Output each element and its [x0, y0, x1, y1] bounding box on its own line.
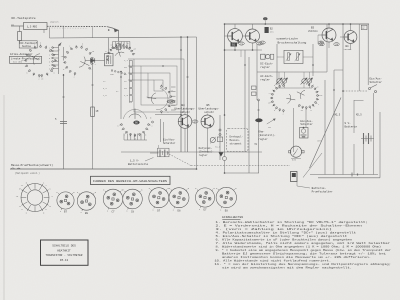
- transistor B5: [201, 115, 214, 128]
- svg-text:Pruefschalter: Pruefschalter: [312, 189, 333, 193]
- svg-text:EINZELHEITEN: EINZELHEITEN: [222, 216, 243, 219]
- svg-text:Batteriezelle: Batteriezelle: [128, 162, 149, 166]
- svg-text:B8: B8: [85, 212, 89, 215]
- svg-text:E7: E7: [203, 209, 207, 212]
- svg-text:1,5 MEG: 1,5 MEG: [27, 25, 38, 28]
- svg-text:2: 2: [27, 47, 28, 50]
- svg-text:B7: B7: [64, 211, 68, 214]
- svg-text:AC-Eich-: AC-Eich-: [260, 74, 273, 78]
- svg-text:2: 2: [269, 92, 270, 95]
- tiny node rings: [180, 49, 182, 51]
- transistor B1 Q1: [228, 29, 243, 44]
- wire y50 bus: [225, 49, 263, 51]
- socket E8: [216, 187, 236, 207]
- oval node 11: [260, 41, 266, 44]
- socket big switch view: [21, 184, 49, 212]
- switch contacts: [369, 88, 371, 90]
- dark oval zum: [255, 118, 262, 122]
- svg-text:D8: D8: [177, 209, 181, 212]
- node oval 15 dark: [263, 17, 267, 20]
- thermistor dark box: [265, 27, 269, 33]
- left column components near F: [252, 86, 257, 90]
- svg-text:sie wird am zweckmassigsten mi: sie wird am zweckmassigsten mit dem Regl…: [222, 266, 352, 270]
- svg-text:(Nullpunkt einst.): (Nullpunkt einst.): [15, 172, 40, 175]
- lamp/pot circle: [210, 137, 215, 142]
- small circle node: [223, 157, 227, 161]
- left bridge rail: [224, 24, 226, 115]
- svg-text:B3,B4: B3,B4: [167, 101, 175, 104]
- shielded cable dashed: [47, 25, 107, 27]
- svg-text:M2,5: M2,5: [356, 113, 362, 116]
- svg-text:abgesch.: abgesch.: [50, 21, 60, 24]
- rotary switch wafer H: [117, 109, 152, 141]
- stub verticals from coax: [63, 27, 65, 38]
- socket C7: [103, 189, 123, 209]
- svg-text:2. E = Vorderseite, H = Ruckse: 2. E = Vorderseite, H = Ruckseite der Sc…: [216, 224, 363, 228]
- dashed mechanical link diagonal: [169, 154, 191, 166]
- svg-text:regler: regler: [199, 154, 209, 157]
- label B6 dark oval: [134, 121, 140, 124]
- cross rail y152: [121, 151, 262, 153]
- rotary switch wafer C: [104, 41, 137, 62]
- svg-text:anderen Instrumenten konnen di: anderen Instrumenten konnen die Messwert…: [222, 255, 371, 259]
- small resistor near wafer C top: [117, 44, 121, 50]
- transistor B3 Q3: [322, 28, 336, 42]
- left rail from wafer B down: [63, 74, 65, 169]
- battery tie wires: [354, 100, 364, 102]
- title box: [41, 240, 89, 265]
- resistor ladder network: [134, 59, 184, 112]
- paper fold line left: [3, 95, 5, 300]
- node arrow between wafers: [59, 43, 62, 46]
- vertical rail x196.5: [196, 37, 198, 169]
- svg-text:2: 2: [74, 76, 75, 79]
- svg-text:2N3391A: 2N3391A: [308, 30, 318, 33]
- svg-text:Schalter: Schalter: [300, 122, 313, 126]
- meter dashed enclosure: [227, 129, 249, 152]
- meter components column: [219, 115, 221, 160]
- battery terminal marks: [351, 173, 353, 177]
- svg-text:regler: regler: [260, 65, 270, 69]
- socket E7: [195, 188, 214, 207]
- svg-text:Alles-Anzeiger: Alles-Anzeiger: [10, 52, 33, 56]
- svg-text:2: 2: [167, 111, 168, 114]
- svg-text:Batterie-: Batterie-: [312, 186, 327, 190]
- N cell battery: [300, 128, 309, 139]
- oval node 72: [318, 41, 324, 44]
- rotary switch wafer F: [268, 81, 295, 116]
- label DC-Tastkopfbuchse: [19, 41, 37, 48]
- socket C8: [123, 189, 143, 209]
- battery box bottom: [310, 174, 378, 176]
- wire wafer B to diode: [85, 60, 91, 62]
- svg-text:Masse-Pruefbuchse(schwarz): Masse-Pruefbuchse(schwarz): [11, 163, 53, 167]
- tall rail pair center: [180, 37, 182, 152]
- svg-text:B73: B73: [318, 140, 323, 143]
- svg-text:2: 2: [309, 80, 310, 83]
- svg-text:6. Alle Kapazitatswerte in uF: 6. Alle Kapazitatswerte in uF (oder Bruc…: [216, 238, 353, 242]
- rotary switch wafer D: [147, 82, 177, 114]
- svg-text:Bruckenschaltung: Bruckenschaltung: [278, 40, 307, 44]
- contact dot 27: [152, 121, 154, 123]
- transistor B4: [178, 115, 192, 129]
- svg-text:Schalter: Schalter: [163, 141, 176, 145]
- resistor R1 1M vertical: [18, 32, 22, 41]
- terminal box top right: [361, 25, 367, 29]
- socket B7: [57, 192, 74, 209]
- capacitor C2 on left rail: [60, 121, 67, 123]
- wire to top net: [108, 38, 110, 54]
- svg-text:Messin-: Messin-: [230, 139, 241, 142]
- svg-text:9. * = bedeutet eine am angege: 9. * = bedeutet eine am angegebenen Mess…: [216, 248, 392, 252]
- oval node 71: [239, 42, 245, 45]
- svg-text:M2,5: M2,5: [335, 113, 341, 116]
- svg-text:E8: E8: [225, 209, 229, 212]
- svg-text:FARBEN DES BEREICH-GM-WAHLSCHA: FARBEN DES BEREICH-GM-WAHLSCHALTERS: [93, 180, 167, 183]
- rotary switch wafer B: [61, 43, 96, 79]
- svg-text:5. Ein/Aus-Schalter in Stellun: 5. Ein/Aus-Schalter in Stellung "OFF" (a…: [216, 234, 348, 238]
- svg-text:2: 2: [318, 103, 319, 106]
- resistor ticks on divider: [91, 107, 95, 117]
- diode D2 dark: [219, 153, 223, 157]
- svg-text:schutz: schutz: [204, 110, 214, 114]
- right rails from top: [358, 24, 360, 91]
- left mid rail: [120, 72, 122, 120]
- B4 B5 leads: [184, 128, 186, 152]
- svg-text:regler: regler: [258, 137, 268, 141]
- svg-text:4. Polaritatsumschalter in Ste: 4. Polaritatsumschalter in Stellung "DC+…: [216, 231, 357, 235]
- svg-text:2: 2: [95, 63, 96, 66]
- probe drop wire: [43, 30, 45, 34]
- vertical pair right of wafer H: [160, 119, 162, 142]
- svg-text:1. Bereichs-Wahlschalter in St: 1. Bereichs-Wahlschalter in Stellung "DC…: [216, 220, 369, 224]
- svg-text:Batterie: Batterie: [345, 124, 358, 128]
- svg-text:B70: B70: [292, 158, 297, 161]
- svg-text:TRANSISTOR - VOLTMETER: TRANSISTOR - VOLTMETER: [46, 254, 83, 257]
- svg-text:(Einstell)-: (Einstell)-: [258, 133, 276, 137]
- jack symbols: [11, 168, 15, 169]
- svg-text:Ohm-: Ohm-: [258, 129, 265, 133]
- rotary switch wafer A: [21, 42, 59, 81]
- svg-text:strument: strument: [230, 143, 243, 146]
- label B3,B4 oval: [167, 100, 175, 103]
- DC-Eich components: [261, 54, 266, 59]
- svg-text:11. * = von der Einstellung de: 11. * = von der Einstellung des Nennspan…: [215, 262, 392, 266]
- transistor B4b Q4: [344, 31, 357, 44]
- oval node 17: [192, 120, 198, 123]
- svg-text:SCHALTBILD DES: SCHALTBILD DES: [52, 245, 76, 248]
- wafer C top contact leads: [112, 42, 114, 48]
- svg-text:2N3392: 2N3392: [344, 48, 353, 51]
- svg-text:HEATHKIT: HEATHKIT: [57, 249, 71, 252]
- probe tip wire: [11, 25, 24, 27]
- transistor B2 Q2: [246, 29, 260, 43]
- svg-text:B4: B4: [181, 104, 185, 107]
- svg-text:B1: B1: [232, 44, 236, 47]
- dashed mechanical link horizontal: [191, 165, 290, 167]
- svg-text:M1,8: M1,8: [215, 146, 221, 149]
- battery area rails: [324, 80, 326, 175]
- svg-text:3. (vorn = Zahlung im Uhrzeige: 3. (vorn = Zahlung im Uhrzeigersinn): [216, 227, 333, 231]
- svg-text:2: 2: [69, 45, 70, 48]
- long diagonal wire: [310, 98, 342, 169]
- wafer A rotor contacts column: [53, 47, 59, 49]
- dashed link to switch: [343, 90, 368, 92]
- junction dots: [224, 49, 226, 51]
- svg-text:B5: B5: [206, 104, 210, 107]
- top rail: [225, 23, 370, 25]
- ladder resistor ticks: [129, 61, 132, 67]
- horizontal link y115: [155, 114, 181, 116]
- oval node 73: [319, 43, 325, 46]
- svg-text:DC-Tastspitze: DC-Tastspitze: [12, 16, 36, 20]
- wafer H bottom pins: [123, 134, 125, 141]
- svg-text:C8: C8: [131, 210, 135, 213]
- oval node 74: [334, 43, 340, 46]
- svg-text:2: 2: [104, 59, 105, 62]
- socket B8: [77, 192, 95, 210]
- svg-text:Ein/Aus-: Ein/Aus-: [370, 77, 383, 81]
- svg-text:7. Alle Widerstande, falls nic: 7. Alle Widerstande, falls nicht anders …: [216, 241, 391, 245]
- svg-text:Schalter: Schalter: [370, 80, 383, 84]
- battery 9V symbol: [361, 138, 374, 140]
- battery cell 1,5V: [150, 152, 159, 154]
- resistor block box: [105, 54, 114, 66]
- bridge wires: [256, 44, 258, 100]
- ground bus wire: [10, 168, 197, 170]
- svg-text:symmetrische: symmetrische: [276, 36, 298, 40]
- svg-text:D7: D7: [157, 209, 161, 212]
- svg-text:10. Alle Widerstande sind nich: 10. Alle Widerstande sind nicht fortlauf…: [215, 259, 332, 263]
- divider rail x=92.5: [92, 61, 94, 170]
- probe body box 1,5 Meg: [24, 23, 48, 30]
- svg-text:regler: regler: [260, 77, 270, 81]
- banner FARBEN box: [91, 176, 171, 184]
- short diagonal wire: [303, 153, 322, 178]
- oval node 12: [257, 42, 263, 45]
- svg-text:IM-13: IM-13: [60, 259, 69, 262]
- svg-text:2: 2: [119, 41, 120, 44]
- wafer D contact leads right: [171, 86, 176, 88]
- diode D1: [91, 59, 95, 63]
- dark component below pot: [291, 172, 298, 182]
- long horizontal net y37.5: [50, 37, 197, 38]
- pot bottom left of battery: [290, 146, 301, 157]
- meter rails down: [224, 115, 226, 157]
- svg-text:2: 2: [151, 124, 152, 127]
- wafer C bottom contacts: [111, 70, 113, 72]
- svg-text:Batterie EJ gemessene Gleichsp: Batterie EJ gemessene Gleichspannung; di…: [222, 252, 386, 256]
- trimmer pots row: [276, 78, 282, 84]
- svg-text:DC-Eich-: DC-Eich-: [260, 61, 273, 65]
- coax end junction arrow: [107, 27, 119, 41]
- wires around G: [293, 108, 295, 152]
- svg-text:2: 2: [38, 78, 39, 81]
- svg-text:1,5: 1,5: [124, 94, 129, 97]
- svg-text:Drehspul-: Drehspul-: [230, 135, 244, 138]
- wiper arrow to wafer F: [267, 119, 275, 124]
- socket D8: [169, 188, 189, 208]
- svg-text:2,2: 2,2: [124, 59, 129, 62]
- svg-text:2: 2: [283, 113, 284, 116]
- rotary switch wafer G: [297, 80, 323, 112]
- meter bottom rail: [225, 172, 260, 174]
- svg-text:C7: C7: [111, 210, 115, 213]
- svg-text:8. Widerstandswerte sind in Oh: 8. Widerstandswerte sind in Ohm angegebe…: [216, 245, 382, 249]
- svg-text:Ein/Aus-: Ein/Aus-: [300, 119, 313, 123]
- bridge box with pots: [284, 50, 303, 63]
- svg-text:Ein/Aus-: Ein/Aus-: [163, 138, 176, 142]
- label B1 dark: [231, 43, 238, 47]
- svg-text:2: 2: [162, 82, 163, 85]
- socket D7: [149, 188, 169, 208]
